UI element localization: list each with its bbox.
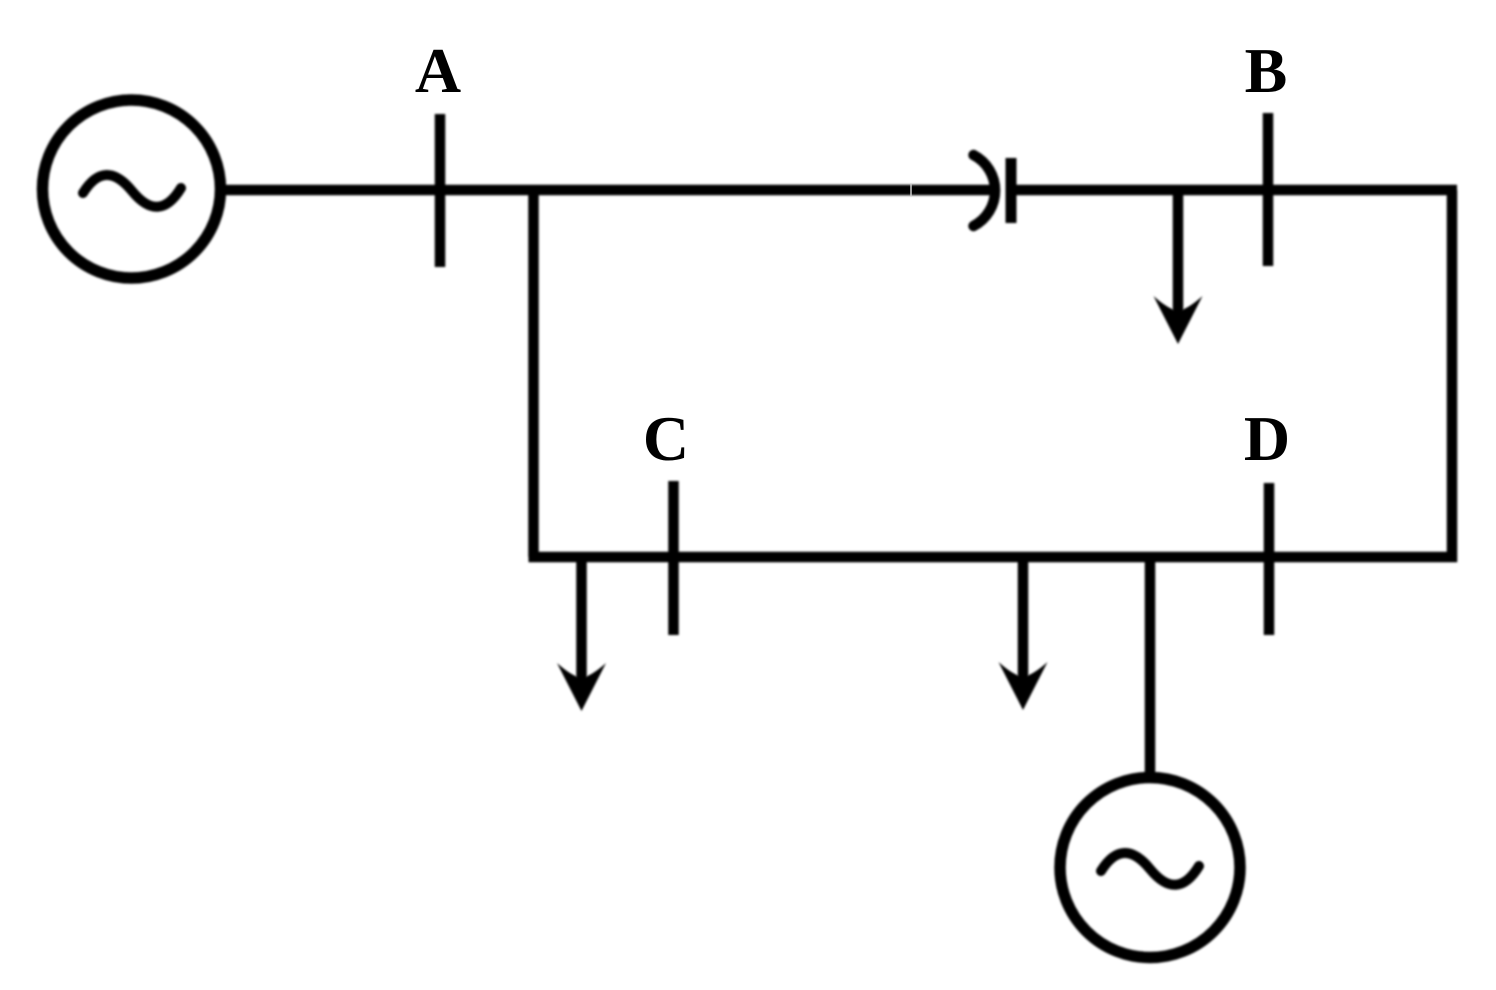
generator G2 sine wave [1101,853,1199,885]
load arrow mid-bottom (stem) [1018,557,1029,682]
wire: right vertical + bottom line + left joint (rectangle sides) [529,190,1453,557]
faint seam artifact on top wire [910,184,912,196]
capacitor curved plate (arc) [974,155,996,226]
capacitor flat plate (bar) [1006,158,1017,223]
bus A (vertical bar) [435,114,446,267]
wire: drop from top line at x=533.5 down to bottom line [528,190,539,557]
load arrow at bus C (stem) [576,557,587,683]
load arrow at bus B (stem) [1173,190,1184,316]
svg-text:D: D [1244,403,1290,474]
wire: capacitor to top-right corner [1016,185,1457,196]
arrowhead of load arrow at bus B [1154,296,1203,344]
svg-text:B: B [1245,35,1288,106]
wire: G1 to series capacitor (top line, y=190) [218,185,997,196]
arrowhead of load arrow mid-bottom [999,662,1048,710]
generator G2 (AC source circle, bottom) [1060,778,1240,958]
bus D (vertical bar) [1264,483,1275,635]
wire: bottom line down to generator G2 [1145,557,1156,776]
arrowhead of load arrow at bus C [557,663,606,711]
generator G1 (AC source circle, top-left) [43,100,221,278]
bus C (vertical bar) [668,481,679,635]
svg-text:C: C [643,403,689,474]
svg-text:A: A [415,35,461,106]
generator G1 sine wave [83,175,181,207]
bus B (vertical bar) [1263,113,1274,266]
